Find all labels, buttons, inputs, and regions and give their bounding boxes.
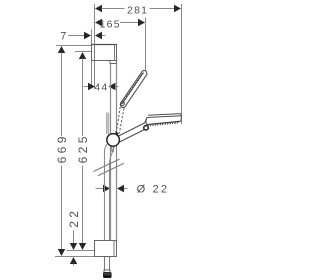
holder knob circle (107, 134, 120, 147)
dashed handle (upper shower position) (117, 107, 124, 133)
svg-text:22: 22 (67, 208, 81, 228)
docked shower joint pivot (144, 126, 149, 130)
dimension 625 (vertical) (76, 52, 90, 250)
hose end cap (103, 273, 111, 278)
svg-text:44: 44 (94, 82, 108, 94)
extension lines below top bracket (91, 61, 93, 89)
holder cone dark wedge (115, 131, 119, 136)
docked shower handle (114, 123, 145, 138)
docked shower head (145, 114, 182, 125)
slider neck (106, 113, 108, 135)
dimension 22 (vertical bottom) (67, 208, 81, 266)
wall reference line A (top bracket face) (91, 29, 93, 45)
bottom bracket (95, 241, 117, 257)
hose left line (105, 144, 108, 240)
hose right line (110, 153, 113, 241)
svg-text:165: 165 (100, 18, 121, 30)
top reference line for 625 (75, 51, 92, 53)
hose cone below holder (111, 146, 113, 152)
hose nut band (104, 270, 110, 273)
docked head nozzle hatch (148, 122, 179, 127)
dimension 669 (vertical) (55, 46, 69, 256)
bottom reference line lower (669/22) (55, 256, 95, 258)
dimension 165 (95, 18, 145, 30)
svg-text:625: 625 (76, 133, 90, 163)
extension line for 281 (181, 4, 183, 124)
svg-text:669: 669 (55, 133, 69, 163)
break mark diagonal 2 (98, 163, 124, 176)
upper shower handle-end loop (121, 102, 125, 106)
wall bar rail tube right edge (116, 64, 118, 241)
svg-text:281: 281 (127, 4, 148, 16)
svg-text:Ø 22: Ø 22 (137, 184, 170, 196)
dimension 281 (95, 4, 181, 16)
svg-text:7: 7 (60, 30, 66, 42)
hose stub below bracket (104, 257, 106, 270)
extension line for 165 (145, 18, 147, 74)
dimension 44 (84, 82, 119, 94)
top bracket (wall holder) (92, 45, 117, 64)
wall reference line B (bottom bracket face) (94, 4, 96, 45)
bottom reference line upper (625/22) (67, 250, 95, 252)
dimension diameter 22 (96, 184, 170, 196)
wall bar rail tube left edge (110, 64, 112, 241)
break mark diagonal 1 (94, 159, 120, 172)
upper shower head (in holder, pointing up) (120, 70, 147, 107)
top reference line for 669 (56, 45, 92, 47)
dimension 7 (60, 30, 105, 42)
